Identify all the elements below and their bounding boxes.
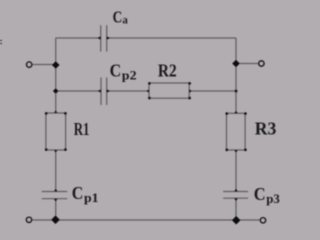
svg-text:R2: R2 (158, 61, 177, 81)
svg-text:R1: R1 (74, 119, 90, 139)
svg-text:p2: p2 (122, 68, 137, 83)
svg-text:C: C (72, 183, 84, 203)
svg-text:C: C (254, 184, 266, 204)
svg-text:p3: p3 (266, 191, 280, 206)
svg-text:R3: R3 (255, 119, 277, 139)
svg-text:C: C (113, 8, 123, 27)
svg-text:a: a (122, 13, 127, 27)
svg-text:C: C (110, 61, 122, 81)
svg-text:p1: p1 (84, 190, 99, 205)
